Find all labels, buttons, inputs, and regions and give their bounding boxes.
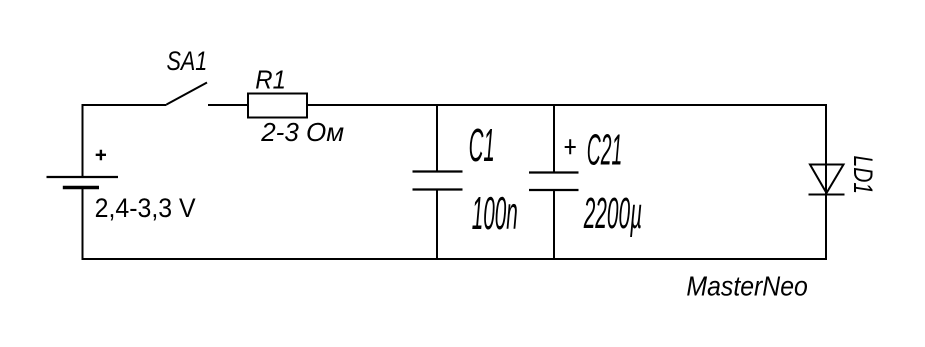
svg-text:R1: R1 xyxy=(255,65,286,94)
capacitor C21 plus sign xyxy=(565,139,576,154)
LED LD1 triangle xyxy=(810,165,844,194)
battery GB1 positive plate xyxy=(47,176,119,178)
battery plus sign xyxy=(96,150,106,160)
svg-text:2-3 Ом: 2-3 Ом xyxy=(260,117,344,147)
svg-text:LD1: LD1 xyxy=(847,156,877,195)
svg-text:2200µ: 2200µ xyxy=(583,190,642,238)
battery GB1 negative plate xyxy=(63,186,99,190)
capacitor C1 top plate xyxy=(413,170,463,172)
svg-text:100n: 100n xyxy=(472,188,518,240)
wire C21 top lead xyxy=(553,105,555,173)
capacitor C21 bottom plate xyxy=(529,189,579,191)
capacitor C21 top plate xyxy=(529,171,579,173)
capacitor C1 bottom plate xyxy=(413,188,463,190)
wire top rail right segment xyxy=(307,104,826,106)
switch SA1 blade xyxy=(167,83,208,105)
svg-text:MasterNeo: MasterNeo xyxy=(686,270,807,301)
wire C1 top lead xyxy=(436,105,438,172)
wire C21 bottom lead xyxy=(553,190,555,259)
wire left vertical lower xyxy=(82,188,84,261)
svg-text:SA1: SA1 xyxy=(167,47,208,77)
wire left vertical upper xyxy=(82,104,84,177)
wire switch to resistor xyxy=(208,104,248,106)
svg-text:2,4-3,3 V: 2,4-3,3 V xyxy=(95,195,197,224)
wire right vertical xyxy=(825,104,827,260)
wire top rail left segment xyxy=(82,104,167,106)
LED LD1 cathode bar xyxy=(809,194,845,196)
resistor R1 xyxy=(248,94,307,118)
svg-text:C1: C1 xyxy=(469,118,495,171)
wire bottom rail xyxy=(82,258,828,260)
wire C1 bottom lead xyxy=(436,190,438,260)
svg-text:C21: C21 xyxy=(587,126,623,175)
